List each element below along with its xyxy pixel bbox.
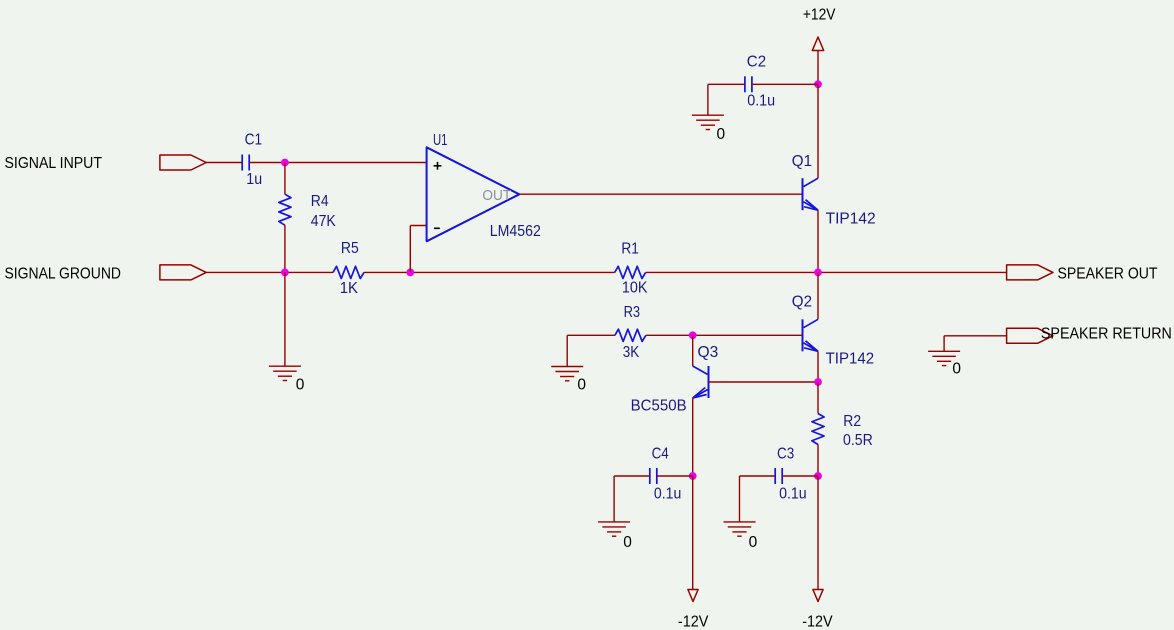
svg-text:47K: 47K — [311, 213, 337, 230]
svg-text:SPEAKER OUT: SPEAKER OUT — [1058, 266, 1158, 283]
wire: Q3 emitter down to C4 node — [692, 398, 694, 476]
svg-text:LM4562: LM4562 — [490, 223, 541, 240]
svg-text:1u: 1u — [246, 171, 262, 188]
wire: Q3 base to Q2 emitter node — [709, 381, 819, 383]
wire: C1 to U1 +IN — [249, 162, 426, 164]
pin - of U1 — [434, 227, 440, 229]
node: Q2 emitter/R2/Q3 base junction — [814, 378, 822, 386]
svg-text:C3: C3 — [777, 446, 794, 463]
wire: C3 left lead to ground — [740, 475, 776, 477]
resistor R3 — [615, 329, 646, 341]
svg-text:-12V: -12V — [802, 613, 833, 630]
wire: R3 ground stem — [566, 335, 568, 366]
resistor R4 — [279, 194, 291, 225]
svg-text:10K: 10K — [622, 280, 648, 297]
svg-text:0: 0 — [749, 534, 758, 551]
wire: SPEAKER RETURN to ground — [944, 335, 1007, 337]
wire: C2 left lead to ground — [708, 83, 745, 85]
transistor Q3 — [708, 366, 710, 398]
ground 0 below R4 node — [269, 365, 301, 367]
wire: ground to R3 — [567, 334, 615, 336]
svg-text:SPEAKER RETURN: SPEAKER RETURN — [1041, 325, 1172, 342]
svg-text:Q2: Q2 — [792, 294, 812, 311]
svg-text:SIGNAL GROUND: SIGNAL GROUND — [5, 265, 122, 282]
node: feedback junction — [406, 269, 414, 277]
node: output rail junction — [814, 269, 822, 277]
transistor Q2 — [802, 319, 804, 351]
wire: R5 to feedback node — [364, 271, 615, 273]
svg-text:OUT: OUT — [482, 188, 511, 204]
wire: C3 node to -12V — [817, 476, 819, 590]
ground 0 at R3 — [551, 366, 583, 368]
ground 0 at C4 — [598, 521, 630, 523]
wire: C2 node to Q1 collector — [817, 84, 819, 178]
ground 0 at C2 — [692, 114, 724, 116]
power -12V symbol left — [688, 590, 698, 602]
node: C1/R4/U1+ junction — [281, 159, 289, 167]
svg-text:BC550B: BC550B — [631, 398, 687, 415]
wire: node down to Q3 collector — [692, 335, 694, 366]
port SIGNAL INPUT — [160, 155, 206, 170]
svg-text:1K: 1K — [340, 280, 359, 297]
svg-text:Q3: Q3 — [698, 344, 719, 361]
wire: +12V to C2 node — [817, 51, 819, 85]
svg-text:R2: R2 — [843, 413, 861, 430]
wire: node to R2 top — [817, 382, 819, 414]
svg-text:C4: C4 — [652, 446, 670, 463]
pin + of U1 — [434, 165, 442, 167]
svg-text:TIP142: TIP142 — [826, 210, 876, 227]
svg-text:0: 0 — [577, 377, 586, 394]
svg-text:0.1u: 0.1u — [654, 486, 681, 503]
node: R3/Q2 base/Q3 collector junction — [689, 331, 697, 339]
svg-text:TIP142: TIP142 — [826, 351, 875, 368]
svg-text:R3: R3 — [624, 304, 641, 321]
wire: C2 right lead — [752, 83, 818, 85]
svg-text:0: 0 — [296, 377, 305, 394]
svg-text:R4: R4 — [311, 193, 329, 210]
wire: ground stem below R4 node — [284, 272, 286, 366]
wire: output rail to Q2 collector — [817, 272, 819, 319]
node: C3 rail junction — [814, 472, 822, 480]
node: +12V/C2 junction — [814, 80, 822, 88]
port SPEAKER OUT — [1007, 265, 1053, 280]
svg-text:-12V: -12V — [678, 613, 709, 630]
transistor Q1 — [802, 178, 804, 210]
wire: C4 node to -12V — [692, 476, 694, 590]
svg-text:SIGNAL INPUT: SIGNAL INPUT — [5, 155, 103, 172]
op-amp U1 — [427, 147, 520, 241]
wire: C4 right lead — [657, 475, 693, 477]
wire: feedback vertical to U1 -IN — [409, 226, 411, 273]
wire: SIGNAL GROUND port to R5 — [206, 271, 333, 273]
svg-text:0.1u: 0.1u — [747, 92, 775, 109]
wire: C3 right lead — [782, 475, 818, 477]
svg-text:0.5R: 0.5R — [843, 432, 873, 449]
wire: U1 OUT to Q1 base — [519, 193, 802, 195]
svg-text:+12V: +12V — [803, 7, 836, 24]
ground 0 at C3 — [724, 521, 756, 523]
svg-text:0.1u: 0.1u — [779, 486, 807, 503]
wire: SIGNAL INPUT port to C1 — [206, 162, 242, 164]
port SPEAKER RETURN — [1007, 328, 1053, 343]
node: C4 rail junction — [689, 472, 697, 480]
svg-text:3K: 3K — [623, 344, 640, 361]
svg-text:0: 0 — [952, 361, 961, 378]
capacitor C4 — [649, 468, 651, 484]
svg-text:Q1: Q1 — [792, 153, 812, 170]
capacitor C3 — [774, 468, 776, 484]
svg-text:0: 0 — [717, 126, 726, 143]
ground 0 at SPEAKER RETURN — [928, 350, 960, 352]
wire: node to R4 top — [284, 163, 286, 195]
svg-text:0: 0 — [623, 534, 632, 551]
svg-text:R5: R5 — [341, 240, 359, 257]
svg-text:U1: U1 — [433, 132, 448, 149]
wire: R4 bottom to ground net — [284, 225, 286, 272]
wire: C4 left lead to ground — [614, 475, 650, 477]
resistor R5 — [333, 266, 364, 278]
capacitor C1 — [241, 155, 243, 171]
svg-text:C1: C1 — [245, 132, 263, 149]
wire: R2 bottom to C3 node — [817, 445, 819, 477]
power +12V symbol — [812, 37, 823, 51]
wire: Q2 emitter down — [817, 351, 819, 382]
port SIGNAL GROUND — [160, 265, 206, 280]
capacitor C2 — [744, 76, 746, 92]
node: R4/R5/ground junction — [281, 269, 289, 277]
resistor R1 — [615, 266, 646, 278]
wire: Q1 emitter to output rail — [817, 210, 819, 272]
resistor R2 — [812, 414, 824, 445]
svg-text:C2: C2 — [747, 54, 766, 71]
wire: R1 to output rail — [646, 271, 1007, 273]
svg-text:R1: R1 — [621, 241, 639, 258]
wire: R3 to Q2 base — [646, 334, 803, 336]
power -12V symbol right — [813, 590, 823, 602]
